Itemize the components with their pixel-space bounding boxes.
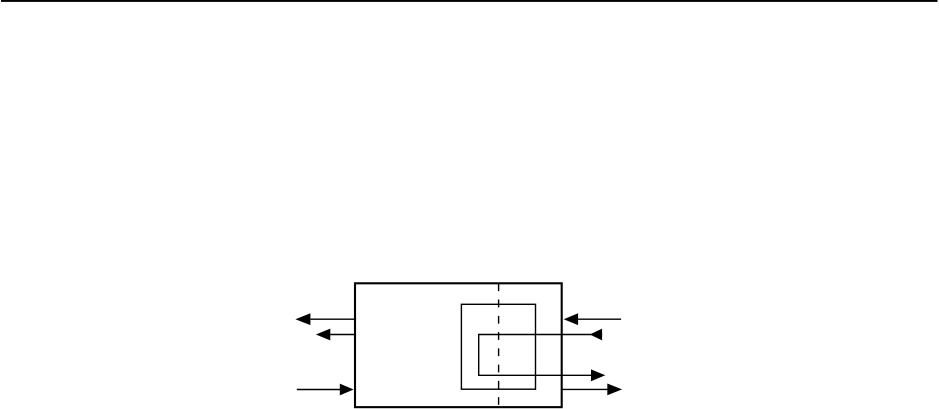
middle box	[461, 304, 535, 389]
dashed center line	[498, 283, 500, 406]
lower-left arrowhead (pointing right into box)	[340, 384, 354, 396]
upper-right incoming wire	[578, 318, 621, 320]
lower-right arrowhead (pointing right)	[607, 384, 622, 396]
second-left arrowhead (pointing left)	[316, 329, 331, 341]
upper-right arrowhead (pointing left into box)	[564, 313, 578, 325]
lower-left incoming wire	[297, 389, 341, 391]
inner box bottom edge / outgoing line to right	[479, 374, 592, 376]
inner box top edge / incoming line from right	[479, 334, 602, 336]
arrowhead out of inner box (right side, pointing right)	[591, 369, 605, 381]
upper-left arrowhead (pointing left)	[295, 313, 310, 325]
upper-left outgoing wire	[311, 318, 357, 320]
inner box left edge	[478, 334, 480, 376]
second-left outgoing wire	[330, 334, 356, 336]
arrowhead into inner box (right side, pointing left)	[590, 329, 602, 341]
lower-right outgoing wire	[561, 388, 608, 390]
outer decoder box	[355, 283, 562, 407]
top header rule	[1, 0, 938, 2]
